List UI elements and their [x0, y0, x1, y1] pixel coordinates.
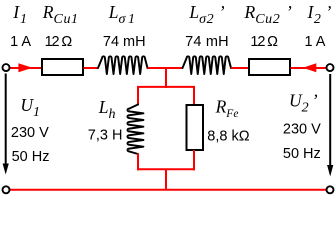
wire box2 to terminal: [291, 67, 327, 69]
svg-text:74 mH: 74 mH: [185, 34, 229, 50]
wire junction vertical top: [165, 68, 167, 88]
current arrow I2': [303, 63, 317, 72]
svg-text:1 A: 1 A: [10, 34, 31, 50]
voltage arrow U1: [5, 74, 7, 166]
wire box1 to coil1: [84, 67, 99, 69]
wire center vertical lower: [165, 169, 167, 190]
wire shunt bottom horizontal: [137, 168, 195, 170]
resistor R_Cu2': [249, 59, 290, 75]
svg-text:7,3 H: 7,3 H: [88, 128, 123, 144]
terminal bottom-right: [327, 186, 334, 193]
voltage arrow U2': [329, 74, 331, 167]
svg-text:50 Hz: 50 Hz: [12, 149, 50, 165]
terminal top-right: [327, 64, 334, 71]
svg-text:230 V: 230 V: [283, 122, 321, 138]
wire coil1 to coil2: [148, 67, 183, 69]
svg-text:74 mH: 74 mH: [103, 34, 146, 50]
svg-text:1 A: 1 A: [305, 34, 326, 50]
svg-text:12 Ω: 12 Ω: [45, 34, 73, 50]
inductor L_sigma1: [98, 56, 148, 74]
svg-text:12 Ω: 12 Ω: [250, 34, 278, 50]
wire RFe branch lower: [193, 150, 195, 170]
resistor R_Cu1: [42, 59, 83, 75]
inductor L_sigma2': [183, 56, 232, 74]
wire Lh branch upper: [137, 87, 139, 105]
current arrow I1: [18, 63, 32, 72]
terminal top-left: [3, 64, 10, 71]
wire Lh branch lower: [137, 154, 139, 171]
wire coil2 to box2: [231, 67, 249, 69]
inductor Lh: [127, 105, 143, 155]
svg-text:8,8 kΩ: 8,8 kΩ: [207, 128, 249, 144]
wire shunt top horizontal: [137, 86, 195, 88]
terminal bottom-left: [3, 186, 10, 193]
wire top-left segment: [10, 67, 43, 69]
svg-text:50 Hz: 50 Hz: [283, 146, 321, 162]
wire bottom horizontal: [10, 189, 327, 191]
wire RFe branch upper: [193, 87, 195, 105]
resistor R_Fe: [187, 105, 204, 150]
svg-text:230 V: 230 V: [11, 125, 49, 141]
